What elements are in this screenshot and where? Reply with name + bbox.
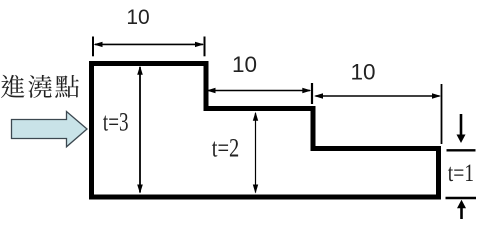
svg-text:10: 10 [126,6,149,29]
svg-text:t=2: t=2 [212,132,240,162]
svg-text:10: 10 [350,60,375,85]
svg-text:10: 10 [232,52,257,77]
svg-text:t=1: t=1 [448,158,474,187]
svg-text:t=3: t=3 [103,107,129,136]
